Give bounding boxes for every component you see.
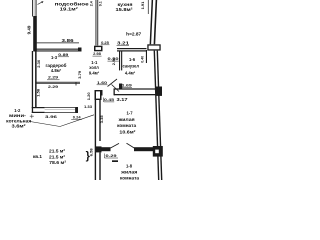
svg-text:9.49: 9.49 (27, 25, 32, 34)
svg-text:0.45: 0.45 (104, 97, 115, 102)
svg-text:3.96: 3.96 (45, 114, 58, 119)
svg-text:1.91: 1.91 (140, 1, 145, 10)
svg-text:2.4: 2.4 (89, 1, 93, 6)
svg-text:жилая: жилая (117, 117, 135, 122)
threshold bar below 0.29 (112, 160, 118, 162)
wall cap wardrobe top right (78, 48, 82, 52)
svg-text:10.6м²: 10.6м² (119, 130, 136, 135)
svg-text:жилая: жилая (120, 170, 138, 175)
svg-text:9.4м²: 9.4м² (89, 71, 100, 76)
svg-text:3.79: 3.79 (77, 70, 82, 79)
wall wardrobe top (37, 49, 80, 52)
svg-text:2.29: 2.29 (48, 75, 59, 80)
svg-text:4.4м²: 4.4м² (125, 70, 136, 75)
wall bottom-left exterior outlined segment (32, 107, 45, 113)
svg-text:1-1: 1-1 (91, 60, 98, 65)
svg-text:1-3: 1-3 (51, 55, 58, 60)
wall junction block right end (156, 87, 163, 96)
wall left exterior upper solid (33, 16, 37, 52)
wall left exterior lower double (32, 51, 37, 108)
svg-text:2.29: 2.29 (48, 84, 59, 89)
svg-text:2.98: 2.98 (93, 51, 102, 56)
svg-text:1.20: 1.20 (86, 92, 91, 101)
wall room8 top left segment (101, 147, 111, 151)
svg-text:гардероб: гардероб (46, 63, 67, 68)
svg-text:1.60: 1.60 (97, 80, 108, 85)
door leaves double door (111, 143, 135, 148)
wall hall top (117, 48, 147, 52)
svg-text:1-7: 1-7 (126, 110, 133, 115)
svg-text:6.58: 6.58 (89, 148, 94, 157)
pier kitchen-hall (94, 46, 103, 52)
svg-text:комната: комната (117, 123, 137, 128)
wall block top right (147, 44, 160, 50)
window in bottom wall (45, 107, 76, 113)
svg-text:3.21: 3.21 (117, 40, 130, 45)
svg-text:78.6 м²: 78.6 м² (49, 160, 67, 165)
svg-text:9.1: 9.1 (99, 1, 103, 6)
svg-text:2.30: 2.30 (36, 59, 41, 68)
svg-text:1-2: 1-2 (14, 108, 21, 113)
wall corridor left vertical (95, 100, 101, 180)
wall kitchen left (96, 0, 99, 46)
svg-text:0.40: 0.40 (141, 56, 145, 63)
svg-text:21.5 м²: 21.5 м² (49, 154, 66, 159)
wall wc niche line (146, 50, 147, 63)
wall wc left (119, 51, 122, 70)
svg-text:комната: комната (120, 175, 140, 180)
svg-text:3.35: 3.35 (99, 115, 104, 124)
wall middle horizontal band (114, 88, 161, 95)
svg-text:холл: холл (89, 65, 99, 70)
svg-text:0.89: 0.89 (58, 52, 69, 57)
wall end cap right of bottom window (75, 107, 78, 113)
tick mark (30, 114, 34, 118)
dim line 1.91 (147, 0, 149, 14)
svg-text:1-8: 1-8 (126, 164, 133, 169)
svg-text:санузел: санузел (123, 64, 140, 69)
svg-text:3.6м²: 3.6м² (12, 123, 27, 128)
svg-text:подсобное: подсобное (55, 0, 90, 6)
wall room8 top right segment (134, 147, 153, 151)
svg-text:1.58: 1.58 (36, 88, 41, 97)
wall kitchen right (150, 0, 158, 44)
vent square black (153, 146, 163, 157)
window in left exterior wall (32, 0, 37, 17)
door swing hall (108, 79, 118, 87)
svg-text:4.8м²: 4.8м² (51, 68, 62, 73)
svg-text:0.24: 0.24 (73, 115, 82, 120)
svg-text:21.5 м²: 21.5 м² (49, 148, 66, 153)
leader line boiler (30, 115, 94, 127)
dim line under 3.86 (37, 41, 80, 44)
wall right exterior (154, 51, 163, 180)
wall wardrobe bottom (37, 82, 81, 86)
door swing wc (112, 85, 120, 92)
svg-text:3.17: 3.17 (117, 97, 129, 102)
wall corner corridor top outlined (95, 90, 103, 100)
wall wc left stub lower (119, 84, 122, 90)
svg-text:h=2.87: h=2.87 (126, 32, 142, 37)
svg-text:19.1м²: 19.1м² (60, 6, 79, 11)
svg-text:1-6: 1-6 (129, 57, 136, 62)
wall junction block corridor bottom (95, 146, 102, 152)
svg-text:1.33: 1.33 (84, 104, 93, 109)
svg-text:кв.1: кв.1 (33, 154, 43, 159)
svg-text:2.98: 2.98 (111, 57, 116, 66)
svg-text:0.25: 0.25 (101, 40, 110, 45)
svg-text:3.86: 3.86 (62, 38, 75, 43)
svg-text:15.8м²: 15.8м² (116, 7, 134, 12)
arrow top left (38, 1, 44, 4)
svg-text:0.29: 0.29 (106, 153, 118, 158)
svg-text:1.69: 1.69 (122, 82, 133, 87)
